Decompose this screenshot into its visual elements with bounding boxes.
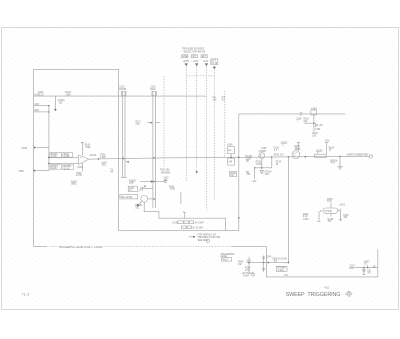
transistor Q105 label (71, 181, 77, 185)
svg-text:−15V: −15V (251, 181, 257, 183)
potentiometer R115 level column (150, 87, 156, 208)
label diagram number (324, 288, 329, 290)
svg-text:2pF: 2pF (213, 99, 218, 101)
svg-text:R116: R116 (223, 259, 229, 261)
svg-text:OR: OR (238, 264, 242, 266)
wire dashed ext-source (205, 66, 207, 210)
svg-text:10K: 10K (312, 135, 317, 137)
capacitor coupling switch row AC (172, 221, 204, 225)
capacitor C100A variable (54, 96, 65, 111)
svg-text:SELECTOR SW410: SELECTOR SW410 (184, 51, 206, 54)
svg-text:C141: C141 (172, 223, 178, 225)
wire rail plus (48, 157, 78, 159)
svg-text:INT: INT (192, 56, 196, 58)
resistor R244 label (238, 262, 244, 266)
svg-text:.001: .001 (343, 217, 348, 219)
resistor R245 label (245, 268, 251, 272)
switch position label EXT (201, 55, 207, 58)
svg-text:21.5K: 21.5K (76, 175, 82, 177)
svg-text:101K: 101K (170, 189, 176, 191)
svg-text:LIGHT: LIGHT (243, 275, 250, 277)
capacitor C104 label (101, 162, 107, 166)
resistor R112 (136, 122, 161, 126)
resistor R161 (303, 119, 314, 124)
title sweep triggering (286, 292, 341, 298)
resistor R102A (50, 165, 62, 171)
svg-text:EXT: EXT (202, 56, 207, 58)
wire dashed line-source (185, 66, 187, 181)
node +5V (284, 275, 289, 277)
svg-text:C246: C246 (303, 219, 309, 221)
svg-text:C103A: C103A (90, 154, 97, 157)
relay K145 (227, 145, 234, 166)
diode CR160 (315, 124, 323, 132)
node Q150 collector (271, 156, 273, 158)
svg-text:FOR DETAILS OF: FOR DETAILS OF (198, 233, 217, 236)
connector arrow ext atten (213, 67, 216, 70)
switch wafer NORM label (160, 169, 171, 174)
svg-text:16.2K: 16.2K (51, 168, 57, 170)
capacitor C4 label (222, 97, 226, 102)
wire ext input feed (238, 114, 240, 230)
svg-text:.001: .001 (101, 165, 106, 167)
svg-text:DC SLOW: DC SLOW (192, 227, 203, 229)
svg-text:AT 10: AT 10 (211, 62, 218, 65)
svg-text:SWEEP TRIGGERING: SWEEP TRIGGERING (286, 292, 341, 298)
svg-text:+GATE TO SWEEP GEN: +GATE TO SWEEP GEN (346, 153, 368, 156)
resistor R162 label (312, 133, 318, 137)
resistor R160 (294, 142, 300, 150)
label triggering level control (220, 254, 235, 262)
resistor R148 boxed label (230, 172, 237, 178)
wire rail minus (48, 163, 78, 165)
svg-text:1K: 1K (295, 148, 298, 150)
resistor R103B (63, 165, 74, 171)
note trigger coupling (189, 233, 221, 242)
svg-text:2.2K: 2.2K (303, 216, 308, 218)
trigger source selector label (182, 48, 206, 54)
resistor R100 label (38, 92, 44, 96)
wire td rail (247, 262, 290, 264)
ground sweep line (338, 166, 343, 169)
tunnel-diode TD245 indicator (320, 199, 349, 223)
svg-text:Q103: Q103 (77, 167, 83, 169)
svg-text:SEL LEVEL: SEL LEVEL (121, 197, 134, 199)
wire Q150 emitter drop (254, 157, 272, 179)
svg-text:10K: 10K (59, 102, 64, 104)
resistor R164 (325, 143, 335, 155)
svg-text:15K: 15K (164, 180, 169, 182)
wire stub input B (34, 110, 50, 113)
svg-text:TRIGGER COUPLING: TRIGGER COUPLING (198, 237, 221, 239)
resistor R246 network (303, 211, 321, 221)
node +15V q160 (324, 141, 330, 143)
svg-text:4.99K: 4.99K (64, 156, 70, 158)
shield box top edge (34, 70, 239, 247)
svg-text:4.22K: 4.22K (278, 270, 284, 272)
label trigd indicator (241, 273, 254, 278)
wire main trigger signal line (89, 156, 369, 159)
wire dashed norm switch (163, 76, 165, 167)
wire dashed int-source (195, 66, 198, 173)
svg-text:1.8M: 1.8M (66, 94, 71, 96)
svg-text:10K: 10K (303, 121, 308, 123)
connector arrow line trig (185, 63, 188, 66)
node T2 (110, 169, 114, 173)
svg-text:.001: .001 (135, 207, 140, 209)
svg-text:+5V: +5V (319, 125, 324, 127)
capacitor coupling switch row DC (181, 226, 203, 229)
svg-text:91.1K: 91.1K (38, 94, 44, 96)
capacitor C103A label (90, 154, 97, 157)
svg-text:1.02K: 1.02K (51, 156, 57, 158)
svg-text:AC FAST: AC FAST (195, 222, 205, 225)
svg-text:A1R: A1R (35, 103, 40, 106)
svg-text:LR: LR (228, 150, 231, 152)
wire level wiper (140, 180, 155, 183)
svg-text:+5V: +5V (284, 275, 289, 277)
diode CR245 (262, 269, 265, 271)
node 100 (34, 95, 39, 97)
capacitor C247 label (349, 266, 355, 270)
label trigd level (272, 258, 288, 262)
svg-text:16.2K: 16.2K (64, 168, 70, 170)
transistor Q160 (292, 149, 301, 159)
wire holdoff rail (352, 267, 378, 269)
transistor Q150B (259, 148, 268, 159)
svg-text:C160: C160 (315, 129, 321, 131)
diode CR150 (246, 170, 272, 176)
node Q160 collector (305, 156, 307, 158)
label sheet number 7L-2 (22, 293, 30, 297)
node sweep start (339, 156, 341, 158)
svg-text:47.5: 47.5 (330, 163, 335, 165)
node E (373, 266, 376, 268)
svg-text:NORMAL: NORMAL (161, 171, 171, 174)
svg-text:.001: .001 (264, 174, 269, 176)
transistor Q103 label (77, 167, 83, 169)
svg-text:−TRIG: −TRIG (17, 171, 24, 173)
connector arrow ext trig (205, 63, 208, 66)
svg-text:OR: OR (230, 175, 234, 177)
svg-text:7.50K: 7.50K (85, 147, 91, 149)
connector +TRIG (21, 146, 49, 150)
svg-text:R152 124: R152 124 (274, 155, 285, 157)
svg-text:+TRIG: +TRIG (21, 148, 28, 150)
svg-text:+10V: +10V (193, 61, 199, 63)
capacitor C245 (262, 256, 272, 272)
svg-text:+100V: +100V (183, 61, 190, 63)
svg-text:27K: 27K (136, 124, 141, 126)
svg-text:(E): (E) (373, 266, 376, 268)
svg-text:8-15: 8-15 (327, 201, 332, 203)
switch position label INT (191, 55, 197, 58)
capacitor C159 (296, 112, 302, 123)
wire input bus (34, 95, 207, 97)
capacitor C152 label (274, 142, 289, 152)
svg-text:.001: .001 (246, 174, 251, 176)
svg-text:K145: K145 (227, 145, 233, 147)
svg-text:LINE: LINE (182, 56, 188, 58)
svg-text:1K: 1K (329, 150, 332, 152)
svg-text:+20 D: +20 D (339, 205, 345, 207)
wire holdoff drop (377, 249, 379, 277)
connector -TRIG (17, 170, 49, 174)
svg-text:1.02K: 1.02K (256, 164, 262, 166)
wire ext bus (239, 113, 345, 115)
svg-text:R110B: R110B (119, 89, 126, 91)
inductor LR165 (315, 150, 327, 157)
node from vert ampl (193, 61, 199, 63)
wire R141 drop (181, 192, 186, 218)
resistor R104 (81, 142, 91, 155)
svg-text:(B): (B) (246, 161, 249, 163)
node -15V td (246, 261, 252, 263)
wire dashed ext atten (213, 70, 215, 200)
capacitor C107 variable (128, 186, 153, 192)
node +100V line source (183, 61, 190, 63)
wire coupling bus (159, 218, 226, 230)
boxed label SEL TRIG LEVEL (120, 195, 138, 199)
wire to sweep generator (346, 153, 368, 156)
node -15V supply (251, 181, 257, 183)
wire stub input A (34, 103, 50, 106)
resistor R107B label (129, 180, 136, 184)
svg-text:Q150B: Q150B (259, 151, 267, 153)
transistor Q145 (137, 195, 155, 206)
svg-text:7L-2: 7L-2 (22, 293, 30, 297)
separator trigger level line (34, 245, 378, 277)
svg-text:+10V: +10V (203, 61, 209, 63)
wire td bias riser (248, 257, 250, 272)
node ext input (203, 61, 209, 63)
boxed label EXT ATTEN (211, 59, 218, 65)
resistor R247 (364, 261, 370, 267)
svg-text:C150: C150 (261, 148, 267, 150)
wire dashed atten column (224, 91, 226, 158)
svg-text:4-15: 4-15 (324, 288, 329, 290)
switch gang dashed link (186, 75, 214, 77)
resistor R101 (63, 153, 73, 159)
node amp output (98, 158, 100, 160)
node wiper terminal (156, 180, 167, 182)
connector arrow int trig (195, 63, 198, 66)
svg-text:(SEL): (SEL) (71, 184, 77, 186)
svg-text:TD 245: TD 245 (324, 211, 332, 213)
wire TD drive (288, 156, 290, 263)
svg-text:1K: 1K (364, 264, 367, 266)
relay K159 (311, 109, 317, 132)
resistor R150 label (245, 155, 262, 166)
switch position label LINE (182, 55, 188, 58)
resistor R165A (330, 156, 340, 166)
resistor R100A (50, 153, 62, 159)
resistor R105 (76, 163, 82, 177)
resistor R141 label (163, 178, 176, 191)
resistor R106 label (100, 155, 106, 159)
resistor R102 label (66, 92, 72, 96)
svg-text:100K: 100K (129, 183, 135, 185)
diode CR145 label (135, 205, 143, 209)
svg-text:4.7K: 4.7K (245, 270, 250, 272)
tunnel-diode TD246 (276, 266, 287, 272)
wire input riser (48, 106, 50, 171)
resistor R152 label (274, 155, 285, 166)
potentiometer R110 slope column (119, 87, 129, 178)
symbol diagram diamond (345, 291, 352, 296)
svg-text:B1R: B1R (35, 110, 40, 112)
wire emitter to coupling (144, 202, 159, 218)
svg-text:TRIGGERING LEVEL R116 ◇ A DIAG: TRIGGERING LEVEL R116 ◇ A DIAG (59, 245, 103, 249)
diode CR247 (362, 268, 371, 275)
terminal sweep output (369, 155, 372, 158)
op-amp Q100 input amplifier (79, 155, 89, 165)
capacitor C2 label (213, 97, 218, 102)
svg-text:TRIG SEL: TRIG SEL (160, 169, 171, 171)
svg-text:R115: R115 (150, 89, 156, 91)
